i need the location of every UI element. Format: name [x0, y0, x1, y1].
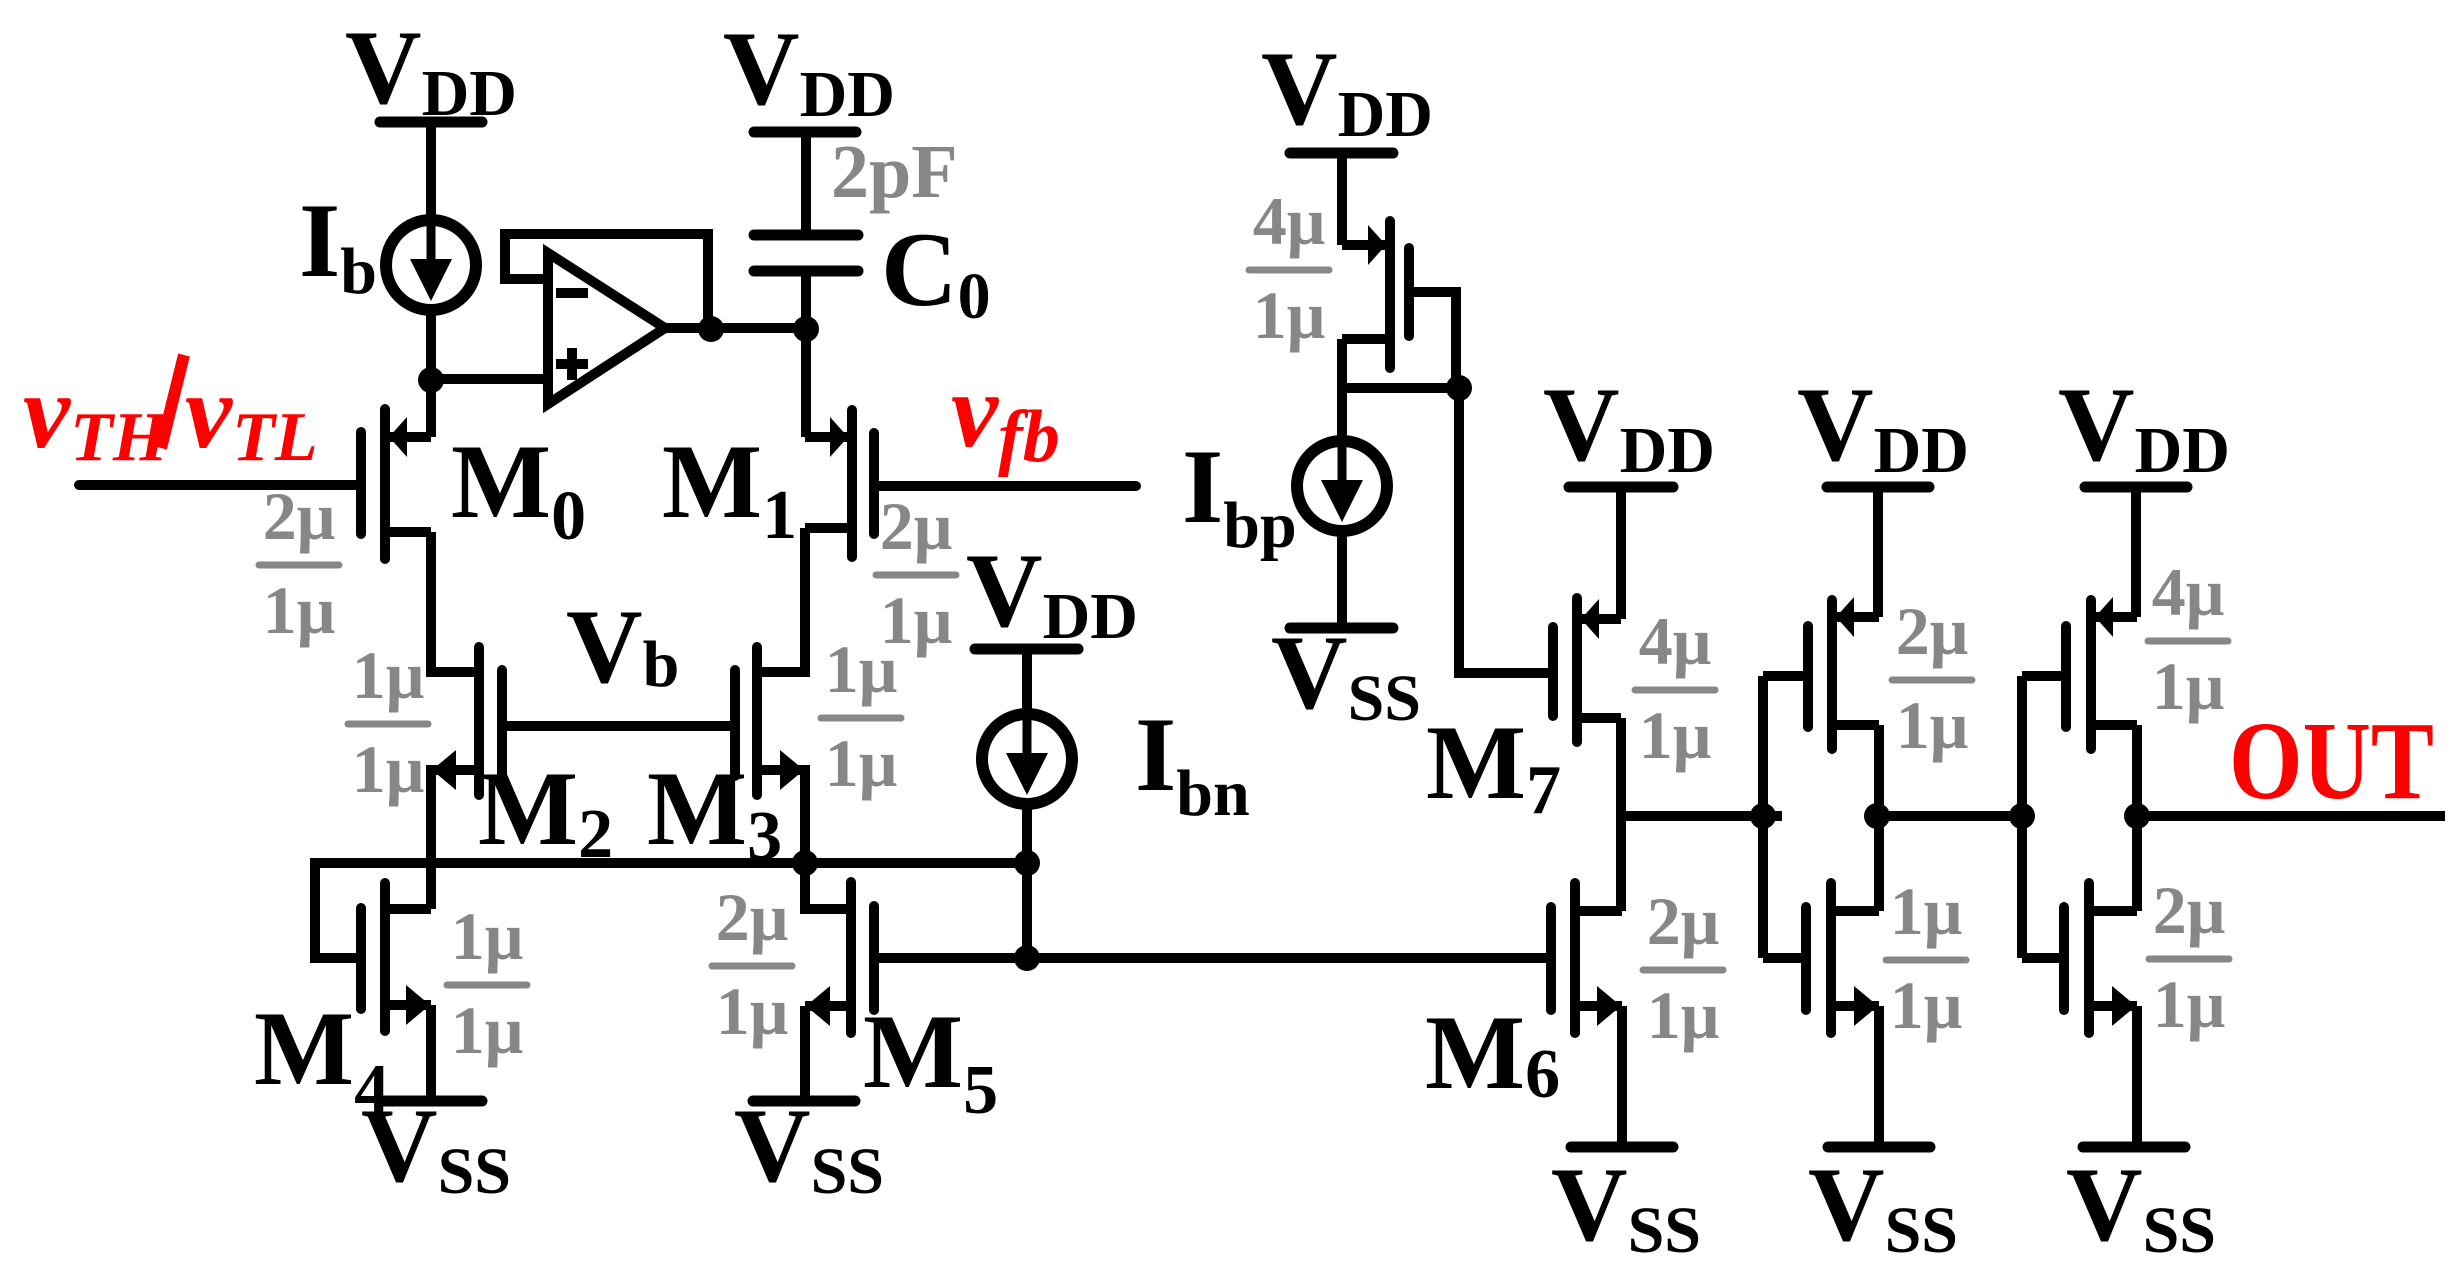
transistor M1 (PMOS input pair) [805, 410, 874, 557]
wire stage2 NMOS gate L [1763, 953, 1806, 963]
svg-text:2μ: 2μ [1896, 593, 1969, 669]
transistor M0 (PMOS input pair) [361, 409, 431, 559]
ground VSS (inverter stage 2) [1808, 1146, 1958, 1267]
size label 2u/1u (stage3 NMOS) [2149, 872, 2229, 1042]
wire OUT line [2137, 811, 2445, 821]
current source Ib [386, 220, 476, 310]
svg-text:2μ: 2μ [2153, 872, 2226, 948]
junction dot stage3 input [2009, 803, 2035, 829]
size label 4u/1u (Ibp PMOS) [1249, 183, 1329, 353]
transistor M6 (NMOS output) [1551, 883, 1622, 1033]
size label 1u/1u (M4) [447, 898, 527, 1068]
svg-text:1μ: 1μ [2153, 966, 2226, 1042]
wire VDD to M7 source [1616, 482, 1626, 619]
wire Ibp-branch PMOS gate to drain (diode connect) [1409, 292, 1456, 393]
wire op-amp feedback loop [505, 234, 708, 329]
svg-text:2μ: 2μ [263, 478, 336, 554]
transistor M3 (NMOS cascode) [735, 647, 805, 795]
transistor M5 (NMOS mirror) [805, 882, 1027, 1033]
size label 4u/1u (stage3 PMOS) [2148, 554, 2228, 724]
svg-text:1μ: 1μ [1253, 277, 1326, 353]
transistor M7 (PMOS output) [1553, 598, 1621, 742]
svg-text:1μ: 1μ [825, 631, 898, 707]
transistor Ibp-branch diode PMOS [1342, 221, 1409, 368]
wire M5 gate (L from bus) [805, 863, 847, 909]
wire vfb net to M1 gate [874, 481, 1136, 491]
junction dot stage3 output [2124, 803, 2150, 829]
ground VSS (M6 source) [1551, 1146, 1701, 1267]
ground VSS (M4 source) [361, 1087, 511, 1208]
svg-text:1μ: 1μ [451, 898, 524, 974]
junction dot feedback/output [698, 316, 724, 342]
wire stage3 NMOS gate L [2022, 953, 2064, 963]
wire VDD to Ib current source [426, 117, 436, 222]
wire M7 drain to M6 drain (stage1 output riser) [1616, 718, 1626, 911]
svg-text:1μ: 1μ [1896, 687, 1969, 763]
wire stage2 PMOS gate L [1763, 671, 1808, 681]
power VDD rail (inverter stage 2) [1797, 366, 1969, 487]
svg-text:1μ: 1μ [825, 725, 898, 801]
junction dot stage2 output [1864, 803, 1890, 829]
svg-text:1μ: 1μ [451, 992, 524, 1068]
ground VSS (inverter stage 3) [2066, 1146, 2216, 1267]
op-amp U1 [548, 253, 665, 404]
wire M2 source down to M4 drain (crosses bus) [426, 765, 436, 909]
net label vTH/vTL (input) [23, 353, 318, 476]
wire Ibp-branch PMOS drain down [1337, 339, 1347, 447]
wire vTH/vTL input to M0 gate [79, 480, 357, 490]
wire M4 source to VSS [426, 1005, 436, 1101]
wire bus M2/M4/M3/Ibn [310, 858, 1027, 868]
wire stage3 output riser [2132, 725, 2142, 911]
junction dot M5 drain node [1014, 945, 1040, 971]
wire M1 drain to M3 drain [800, 528, 810, 677]
wire output node down to M1 source [801, 266, 811, 437]
power VDD rail (M7 branch) [1543, 366, 1715, 487]
wire VDD to stage2 PMOS source [1873, 482, 1883, 617]
size label 2u/1u (stage2 PMOS) [1892, 593, 1972, 763]
svg-text:1μ: 1μ [352, 731, 425, 807]
svg-text:1μ: 1μ [263, 572, 336, 648]
wire stage3 gate riser [2017, 676, 2027, 958]
wire stage3 PMOS gate L [2022, 671, 2066, 681]
svg-text:2μ: 2μ [1647, 883, 1720, 959]
wire M5 drain node to M6 gate [1027, 953, 1552, 963]
svg-text:1μ: 1μ [352, 637, 425, 713]
svg-text:OUT: OUT [2229, 700, 2434, 823]
size label 2u/1u (M0) [259, 478, 339, 648]
wire M0 drain to M2 drain [426, 532, 436, 677]
power VDD rail (Ibn branch) [966, 532, 1138, 653]
svg-text:2pF: 2pF [831, 130, 958, 214]
wire drain node to gate riser [1342, 383, 1459, 393]
svg-text:1μ: 1μ [1647, 977, 1720, 1053]
wire stage2 output segment [1877, 811, 2034, 821]
junction dot Ibn/bus [1014, 850, 1040, 876]
svg-text:1μ: 1μ [2152, 648, 2225, 724]
junction dot M3 source / M5 gate [792, 850, 818, 876]
size label 2u/1u (M6) [1643, 883, 1723, 1053]
wire VDD to stage3 PMOS source [2131, 482, 2141, 617]
size label 4u/1u (M7) [1635, 603, 1715, 773]
transistor stage2 PMOS [1808, 597, 1879, 749]
wire M6 source to VSS [1617, 1006, 1627, 1147]
wire Ibn to bus and M5 drain node [1022, 799, 1032, 958]
junction dot output/C0/M1 [793, 316, 819, 342]
transistor stage3 PMOS [2066, 597, 2137, 749]
wire VDD to Ibn [1022, 644, 1032, 720]
transistor stage3 NMOS [2064, 883, 2137, 1033]
capacitor C0 [754, 235, 858, 271]
wire C0 top plate to VDD [801, 127, 811, 240]
wire stage2 gate riser [1758, 676, 1768, 958]
svg-text:4μ: 4μ [1639, 603, 1712, 679]
wire stage2 output riser [1874, 725, 1884, 911]
svg-text:4μ: 4μ [1253, 183, 1326, 259]
power VDD rail (Ib branch) [345, 9, 517, 130]
wire op-amp output [665, 323, 806, 333]
power VDD rail (C0 branch) [723, 10, 895, 132]
svg-text:4μ: 4μ [2152, 554, 2225, 630]
svg-text:1μ: 1μ [1639, 697, 1712, 773]
junction dot stage2 input [1750, 803, 1776, 829]
current source Ibp [1297, 441, 1387, 531]
svg-text:2μ: 2μ [716, 879, 789, 955]
wire Vb gate bus M2-M3 [502, 721, 735, 731]
wire Ibp to VSS [1337, 525, 1347, 628]
wire M3 source to bus [800, 765, 810, 863]
power VDD rail (Ibp branch) [1261, 30, 1433, 153]
svg-text:1μ: 1μ [1890, 873, 1963, 949]
wire node A to op-amp + input [431, 374, 548, 384]
transistor stage2 NMOS [1806, 883, 1879, 1033]
wire stage3 NMOS source to VSS [2132, 1006, 2142, 1147]
svg-text:1μ: 1μ [716, 973, 789, 1049]
svg-text:2μ: 2μ [880, 488, 953, 564]
ground VSS (M5 source) [734, 1087, 884, 1208]
ground VSS (Ibp branch) [1271, 614, 1421, 735]
wire stage2 NMOS source to VSS [1874, 1006, 1884, 1147]
wire VDD to Ibp-branch PMOS source [1337, 148, 1347, 245]
wire M4 gate to bus (L) [315, 863, 361, 958]
wire Ib to M0 source / op-amp node [426, 308, 436, 437]
size label 1u/1u (M2) [348, 637, 428, 807]
size label 2u/1u (M1) [876, 488, 956, 658]
current source Ibn [982, 714, 1072, 804]
wire gate riser down to M7 gate [1459, 388, 1553, 673]
transistor M2 (NMOS cascode) [431, 647, 502, 795]
size label 1u/1u (stage2 NMOS) [1886, 873, 1966, 1043]
size label 1u/1u (M3) [821, 631, 901, 801]
wire stage1 output segment [1621, 811, 1782, 821]
junction dot diode node [1446, 375, 1472, 401]
node A junction dot [418, 367, 444, 393]
wire M5 source to VSS [800, 1006, 810, 1101]
size label 2u/1u (M5) [712, 879, 792, 1049]
transistor M4 (NMOS diode load) [361, 883, 431, 1031]
svg-text:1μ: 1μ [1890, 967, 1963, 1043]
power VDD rail (inverter stage 3) [2058, 366, 2230, 487]
